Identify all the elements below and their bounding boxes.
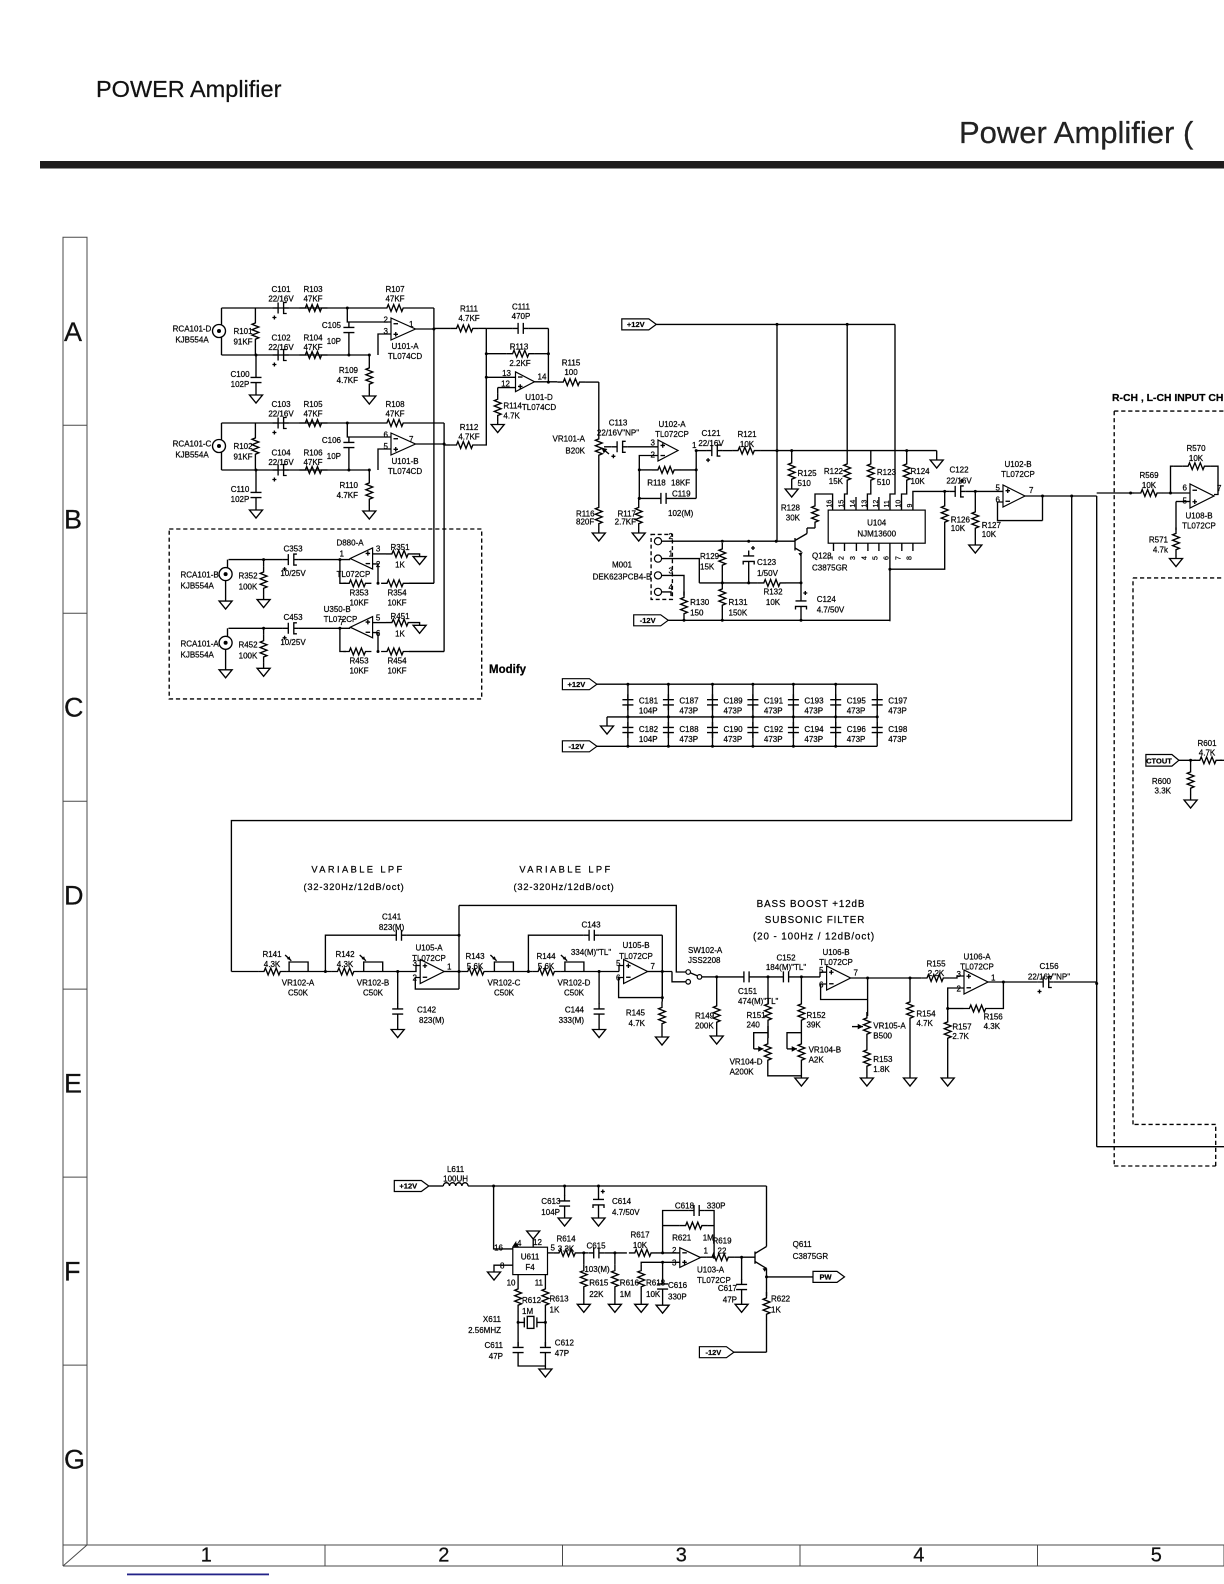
svg-text:4.7KF: 4.7KF [458,314,479,323]
svg-text:91KF: 91KF [233,453,252,462]
svg-text:C152: C152 [776,953,796,962]
svg-text:PW: PW [819,1273,832,1282]
svg-text:1: 1 [447,963,452,972]
svg-text:U102-B: U102-B [1004,460,1031,469]
svg-text:C123: C123 [757,558,777,567]
svg-text:5: 5 [384,442,389,451]
svg-text:TL072CP: TL072CP [655,430,689,439]
svg-text:R571: R571 [1149,536,1169,545]
svg-text:VR102-A: VR102-A [282,979,315,988]
svg-text:10KF: 10KF [349,598,368,607]
svg-text:22/16V"NP": 22/16V"NP" [1028,973,1070,982]
svg-text:U101-B: U101-B [391,457,418,466]
svg-text:18KF: 18KF [671,479,690,488]
svg-text:22/16V"NP": 22/16V"NP" [597,429,639,438]
svg-text:C198: C198 [888,725,908,734]
svg-text:TL072CP: TL072CP [324,615,358,624]
svg-text:8: 8 [907,556,914,560]
svg-text:13: 13 [502,369,511,378]
svg-text:R615: R615 [589,1279,609,1288]
svg-text:473P: 473P [724,707,743,716]
svg-text:U108-B: U108-B [1185,512,1212,521]
svg-text:104P: 104P [639,735,658,744]
svg-text:5: 5 [1151,1545,1162,1567]
svg-text:10P: 10P [327,337,341,346]
svg-text:C101: C101 [271,285,291,294]
svg-text:KJB554A: KJB554A [175,336,209,345]
svg-text:8: 8 [500,1262,505,1271]
svg-text:U104: U104 [867,519,887,528]
svg-text:104P: 104P [541,1208,560,1217]
svg-text:2.56MHZ: 2.56MHZ [468,1326,501,1335]
svg-text:11: 11 [535,1279,544,1288]
svg-text:A200K: A200K [730,1067,755,1076]
svg-text:47KF: 47KF [385,410,404,419]
svg-text:3: 3 [384,327,389,336]
svg-text:C181: C181 [639,697,659,706]
svg-text:1M: 1M [620,1290,631,1299]
svg-text:C103: C103 [271,400,291,409]
svg-text:R621: R621 [672,1233,692,1242]
svg-text:100UH: 100UH [443,1175,468,1184]
svg-text:7: 7 [1029,486,1034,495]
svg-text:R115: R115 [562,358,581,367]
svg-text:473P: 473P [764,707,783,716]
svg-text:C453: C453 [283,613,303,622]
svg-text:R121: R121 [737,430,757,439]
svg-text:POWER Amplifier: POWER Amplifier [96,76,282,102]
svg-text:-12V: -12V [640,616,656,625]
svg-text:R152: R152 [807,1011,827,1020]
svg-text:VR105-A: VR105-A [873,1022,906,1031]
svg-text:2: 2 [438,1545,449,1567]
svg-text:C102: C102 [271,334,291,343]
svg-text:1/50V: 1/50V [757,569,779,578]
svg-text:C187: C187 [679,697,699,706]
svg-text:473P: 473P [888,735,907,744]
svg-text:11: 11 [884,500,891,507]
svg-text:473P: 473P [888,707,907,716]
svg-text:C105: C105 [322,321,342,330]
svg-text:330P: 330P [707,1202,726,1211]
svg-text:3.3K: 3.3K [1155,787,1172,796]
svg-text:473P: 473P [847,735,866,744]
svg-text:R103: R103 [303,285,323,294]
svg-text:91KF: 91KF [233,338,252,347]
svg-text:240: 240 [747,1020,761,1029]
svg-text:473P: 473P [679,707,698,716]
svg-text:(32-320Hz/12dB/oct): (32-320Hz/12dB/oct) [304,882,405,892]
svg-text:C124: C124 [817,595,837,604]
svg-text:R451: R451 [390,612,410,621]
svg-text:TL074CD: TL074CD [388,352,422,361]
svg-text:BASS BOOST +12dB: BASS BOOST +12dB [757,899,866,910]
svg-text:R144: R144 [536,952,556,961]
svg-text:5: 5 [819,966,824,975]
svg-text:R105: R105 [303,400,323,409]
svg-text:3: 3 [850,556,857,560]
svg-text:G: G [64,1445,85,1475]
svg-text:C190: C190 [724,725,744,734]
svg-text:TL072CP: TL072CP [960,962,994,971]
svg-text:C195: C195 [847,697,867,706]
svg-text:184(M)"TL": 184(M)"TL" [766,963,807,972]
svg-text:R155: R155 [926,959,946,968]
svg-text:VR104-D: VR104-D [730,1058,763,1067]
svg-text:10P: 10P [327,452,341,461]
svg-text:C141: C141 [382,913,402,922]
svg-text:10K: 10K [951,524,966,533]
svg-text:R454: R454 [387,657,407,666]
svg-text:22/16V: 22/16V [946,477,972,486]
svg-text:U101-D: U101-D [525,393,553,402]
svg-text:R619: R619 [712,1236,732,1245]
svg-text:VR102-D: VR102-D [558,979,591,988]
svg-text:47KF: 47KF [385,295,404,304]
svg-text:102P: 102P [231,380,250,389]
svg-text:C151: C151 [738,987,758,996]
svg-text:C192: C192 [764,725,784,734]
svg-text:B20K: B20K [565,447,585,456]
svg-text:C119: C119 [672,490,691,499]
svg-text:R109: R109 [339,366,359,375]
svg-text:2.7K: 2.7K [952,1032,969,1041]
svg-text:6: 6 [819,981,824,990]
svg-text:100K: 100K [239,583,258,592]
svg-text:C100: C100 [230,370,250,379]
svg-text:3: 3 [651,439,656,448]
svg-text:R122: R122 [824,467,844,476]
svg-text:C191: C191 [764,697,784,706]
svg-text:U611: U611 [521,1253,540,1262]
svg-text:4: 4 [862,556,869,560]
svg-text:334(M)"TL": 334(M)"TL" [571,948,612,957]
svg-text:R617: R617 [630,1231,650,1240]
svg-text:VR102-B: VR102-B [357,979,389,988]
svg-text:1: 1 [991,974,996,983]
svg-text:47P: 47P [723,1296,737,1305]
svg-text:B: B [64,505,82,535]
svg-text:4.7K: 4.7K [1199,749,1216,758]
svg-text:39K: 39K [807,1020,822,1029]
svg-text:12: 12 [533,1238,542,1247]
svg-text:16: 16 [494,1244,503,1253]
svg-text:10K: 10K [911,477,926,486]
svg-text:1: 1 [669,550,674,559]
svg-text:RCA101-C: RCA101-C [173,440,212,449]
svg-text:C193: C193 [804,697,824,706]
svg-text:3.3K: 3.3K [558,1245,575,1254]
svg-text:R101: R101 [233,327,253,336]
svg-text:1: 1 [340,549,345,558]
svg-text:47P: 47P [555,1349,569,1358]
svg-text:U106-B: U106-B [822,948,849,957]
svg-text:C613: C613 [541,1197,561,1206]
svg-text:14: 14 [538,373,547,382]
svg-text:22/16V: 22/16V [268,295,294,304]
svg-text:200K: 200K [695,1022,714,1031]
svg-text:22/16V: 22/16V [268,410,294,419]
svg-text:R622: R622 [771,1295,791,1304]
svg-text:R612: R612 [522,1296,542,1305]
svg-text:R453: R453 [349,657,369,666]
svg-text:JSS2208: JSS2208 [688,956,721,965]
svg-text:C196: C196 [847,725,867,734]
svg-text:RCA101-B: RCA101-B [181,571,219,580]
svg-text:47KF: 47KF [303,410,322,419]
svg-text:3: 3 [376,545,381,554]
svg-text:C156: C156 [1039,962,1059,971]
svg-text:10/25V: 10/25V [280,569,306,578]
svg-text:R569: R569 [1139,471,1159,480]
svg-text:Q611: Q611 [793,1240,813,1249]
svg-text:473P: 473P [764,735,783,744]
svg-text:5: 5 [996,484,1001,493]
svg-text:7: 7 [854,969,859,978]
svg-text:333(M): 333(M) [559,1016,585,1025]
svg-text:15: 15 [839,500,846,508]
svg-text:4.7/50V: 4.7/50V [612,1208,640,1217]
svg-text:473P: 473P [847,707,866,716]
svg-text:R613: R613 [550,1295,570,1304]
svg-text:C113: C113 [609,419,628,428]
svg-text:B500: B500 [873,1031,892,1040]
svg-text:22/16V: 22/16V [268,343,294,352]
svg-text:R112: R112 [460,423,479,432]
svg-text:C144: C144 [565,1006,585,1015]
svg-text:R102: R102 [233,442,253,451]
svg-text:10K: 10K [633,1241,648,1250]
svg-text:820F: 820F [576,518,594,527]
svg-text:3: 3 [669,566,674,575]
svg-text:R141: R141 [262,950,282,959]
svg-text:1: 1 [704,1247,709,1256]
svg-text:510: 510 [877,478,891,487]
svg-text:R107: R107 [385,285,405,294]
svg-text:R351: R351 [390,543,410,552]
svg-text:4.7KF: 4.7KF [458,433,479,442]
svg-text:C3875GR: C3875GR [812,564,848,573]
svg-text:R127: R127 [982,521,1002,530]
svg-text:47KF: 47KF [303,343,322,352]
svg-text:C121: C121 [701,429,721,438]
svg-text:U101-A: U101-A [391,342,419,351]
svg-text:TL074CD: TL074CD [522,403,556,412]
svg-text:Modify: Modify [489,664,527,676]
svg-text:R106: R106 [303,449,323,458]
svg-text:Q128: Q128 [812,552,832,561]
svg-text:473P: 473P [804,735,823,744]
svg-text:CTOUT: CTOUT [1146,756,1172,765]
svg-text:15K: 15K [829,477,844,486]
svg-text:470P: 470P [512,312,531,321]
svg-text:C110: C110 [231,485,250,494]
svg-text:22K: 22K [589,1290,604,1299]
svg-text:47KF: 47KF [303,295,322,304]
svg-text:KJB554A: KJB554A [181,582,215,591]
svg-text:Power Amplifier (: Power Amplifier ( [959,115,1194,150]
svg-text:R114: R114 [503,401,522,410]
svg-text:VARIABLE LPF: VARIABLE LPF [311,865,404,875]
svg-text:10KF: 10KF [349,667,368,676]
svg-text:102P: 102P [231,495,250,504]
svg-text:R149: R149 [695,1012,715,1021]
svg-text:2: 2 [669,532,674,541]
svg-text:VR102-C: VR102-C [488,979,521,988]
svg-text:C617: C617 [718,1284,738,1293]
svg-text:4.3K: 4.3K [337,960,354,969]
svg-text:R570: R570 [1186,444,1206,453]
svg-text:C618: C618 [675,1202,695,1211]
svg-text:104P: 104P [639,707,658,716]
svg-text:473P: 473P [679,735,698,744]
svg-text:(32-320Hz/12dB/oct): (32-320Hz/12dB/oct) [514,882,615,892]
svg-text:C182: C182 [639,725,659,734]
svg-text:4.7K: 4.7K [629,1019,646,1028]
svg-text:R111: R111 [460,305,478,314]
svg-text:102(M): 102(M) [668,509,694,518]
svg-text:4.7/50V: 4.7/50V [817,606,845,615]
svg-text:TL074CD: TL074CD [388,467,422,476]
svg-text:4.7KF: 4.7KF [337,376,358,385]
svg-text:RCA101-D: RCA101-D [173,325,212,334]
svg-text:1: 1 [692,441,697,450]
svg-text:R352: R352 [238,572,258,581]
svg-text:330P: 330P [668,1293,687,1302]
svg-text:1: 1 [201,1545,212,1567]
svg-text:R354: R354 [387,588,407,597]
svg-text:4.7k: 4.7k [1153,546,1169,555]
svg-text:4.7KF: 4.7KF [337,491,358,500]
svg-text:C614: C614 [612,1197,632,1206]
svg-text:L611: L611 [447,1165,465,1174]
svg-text:R601: R601 [1197,739,1217,748]
svg-text:4.3K: 4.3K [984,1022,1001,1031]
svg-text:F4: F4 [525,1263,535,1272]
svg-text:RCA101-A: RCA101-A [181,639,220,648]
svg-text:TL072CP: TL072CP [1001,470,1035,479]
svg-text:10/25V: 10/25V [280,638,306,647]
svg-text:10K: 10K [740,440,755,449]
svg-text:TL072CP: TL072CP [819,958,853,967]
svg-text:U103-A: U103-A [697,1266,725,1275]
svg-text:2: 2 [376,560,381,569]
svg-text:C615: C615 [586,1242,606,1251]
svg-text:1K: 1K [395,629,405,638]
svg-text:4.7K: 4.7K [503,411,520,420]
svg-text:6: 6 [1183,484,1188,493]
svg-text:R452: R452 [238,640,258,649]
svg-text:510: 510 [798,479,812,488]
svg-text:NJM13600: NJM13600 [857,530,896,539]
svg-text:10K: 10K [1189,454,1204,463]
svg-text:C106: C106 [322,436,342,445]
svg-text:R108: R108 [385,400,405,409]
svg-text:10K: 10K [982,530,997,539]
svg-text:C612: C612 [555,1338,575,1347]
svg-text:U106-A: U106-A [963,952,991,961]
svg-text:U105-B: U105-B [622,941,649,950]
svg-text:10: 10 [507,1279,516,1288]
svg-text:VARIABLE LPF: VARIABLE LPF [519,865,612,875]
svg-text:SUBSONIC FILTER: SUBSONIC FILTER [765,915,865,926]
svg-text:1K: 1K [771,1306,781,1315]
svg-text:100K: 100K [239,651,258,660]
svg-text:473P: 473P [804,707,823,716]
svg-text:7: 7 [409,435,414,444]
svg-text:D880-A: D880-A [336,539,364,548]
svg-text:C194: C194 [804,725,824,734]
svg-text:10K: 10K [1142,481,1157,490]
svg-text:R132: R132 [763,588,783,597]
svg-text:U102-A: U102-A [658,420,686,429]
svg-text:7: 7 [651,962,656,971]
svg-text:2.2K: 2.2K [928,969,945,978]
svg-text:10KF: 10KF [387,598,406,607]
svg-text:150: 150 [690,609,704,618]
svg-text:-12V: -12V [705,1348,721,1357]
svg-text:47KF: 47KF [303,458,322,467]
svg-text:TL072CP: TL072CP [1182,522,1216,531]
svg-text:C189: C189 [724,697,744,706]
svg-text:C353: C353 [283,544,303,553]
svg-text:6: 6 [376,629,381,638]
svg-text:14: 14 [850,500,857,508]
svg-text:R156: R156 [984,1013,1004,1022]
svg-text:R353: R353 [349,588,369,597]
svg-text:4: 4 [669,583,674,592]
svg-text:R143: R143 [465,952,485,961]
svg-text:15K: 15K [700,563,715,572]
svg-text:2: 2 [957,985,962,994]
svg-text:22/16V: 22/16V [698,439,724,448]
svg-text:R110: R110 [339,481,358,490]
svg-text:5.6K: 5.6K [538,962,555,971]
svg-text:R600: R600 [1152,777,1172,786]
svg-text:A: A [64,317,82,347]
svg-text:2.7KF: 2.7KF [615,518,636,527]
svg-text:C50K: C50K [363,989,384,998]
svg-text:9: 9 [907,504,914,508]
svg-text:VR101-A: VR101-A [553,435,586,444]
svg-text:823(M): 823(M) [419,1016,445,1025]
svg-text:+12V: +12V [627,320,645,329]
svg-text:2: 2 [838,556,845,560]
svg-text:150K: 150K [729,609,748,618]
svg-text:C50K: C50K [288,989,309,998]
svg-text:R157: R157 [952,1023,972,1032]
svg-text:C611: C611 [484,1341,503,1350]
svg-text:R145: R145 [626,1009,646,1018]
svg-text:2: 2 [672,1246,677,1255]
svg-text:R-CH , L-CH INPUT CH: R-CH , L-CH INPUT CH [1112,393,1223,404]
svg-text:R151: R151 [747,1011,767,1020]
svg-text:+12V: +12V [568,680,586,689]
svg-text:R130: R130 [690,598,710,607]
svg-text:12: 12 [501,379,510,388]
svg-text:5: 5 [551,1244,556,1253]
svg-text:823(M): 823(M) [379,923,405,932]
svg-text:10K: 10K [766,598,781,607]
svg-text:R128: R128 [781,504,801,513]
svg-text:6: 6 [384,431,389,440]
svg-text:DEK623PCB4-B: DEK623PCB4-B [593,573,652,582]
svg-text:7: 7 [1217,484,1222,493]
svg-text:KJB554A: KJB554A [175,451,209,460]
svg-text:C143: C143 [581,921,601,930]
svg-text:+12V: +12V [399,1182,417,1191]
svg-text:R614: R614 [556,1235,576,1244]
